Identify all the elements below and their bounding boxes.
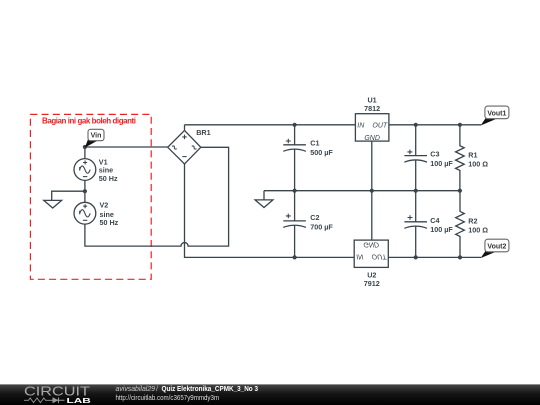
svg-text:100 µF: 100 µF [430,159,453,168]
node dot top rail C1 [293,123,297,127]
capacitor C3 [404,125,453,191]
svg-text:Bagian ini gak boleh diganti: Bagian ini gak boleh diganti [42,116,136,125]
node dot mid rail C3/C4 [414,189,418,193]
resistor R1 [456,125,489,191]
wire V1 to V2 [84,180,86,202]
svg-text:U2: U2 [367,270,376,279]
capacitor C2 [283,191,333,258]
bridge rectifier BR1 [168,125,211,164]
regulator U2 7912 (flipped vertically) [354,240,388,288]
svg-text:100 µF: 100 µF [430,225,453,234]
svg-text:OUT: OUT [372,122,388,129]
svg-text:C4: C4 [430,216,439,225]
annotation red dashed box [30,114,151,279]
logo squiggle (resistor + diode) [24,397,65,403]
svg-text:Quiz Elektronika_CPMK_3_No 3: Quiz Elektronika_CPMK_3_No 3 [162,384,259,393]
node flag Vout1 [481,106,509,125]
svg-text:http://circuitlab.com/c3657y9m: http://circuitlab.com/c3657y9mmdy3m [116,393,220,402]
wire U1 GND to U2 GND (crosses mid rail) [371,141,373,240]
node dot top rail R1 [458,123,462,127]
svg-text:LAB: LAB [67,396,92,405]
svg-text:GND: GND [363,240,379,247]
wire top rail left (bridge to U1) [185,124,356,126]
node dot top rail C3 [414,123,418,127]
footer bar [0,384,540,405]
regulator U1 7812 [355,95,389,142]
svg-text:IN: IN [357,122,365,129]
svg-text:100 Ω: 100 Ω [468,159,488,168]
node dot bottom rail C4 [414,255,418,259]
svg-text:U1: U1 [367,95,376,104]
node dot mid rail R1/R2 [458,189,462,193]
node dot bottom rail C2 [293,255,297,259]
svg-text:7812: 7812 [364,104,380,113]
capacitor C4 [404,191,453,258]
svg-text:C3: C3 [430,150,439,159]
node dot mid rail GND column [370,189,374,193]
svg-text:C2: C2 [310,213,319,222]
svg-text:Vin: Vin [91,133,102,140]
wire bridge bottom to U2 IN (bottom rail left) [185,164,355,258]
svg-text:R2: R2 [468,216,477,225]
voltage source V2 [74,200,119,227]
svg-text:IN: IN [356,253,364,260]
svg-text:Vout2: Vout2 [487,243,506,250]
wire V1 top stub [84,147,86,159]
svg-text:R1: R1 [468,151,477,160]
svg-text:V2: V2 [100,200,109,209]
node junction dot V1/V2/ground [83,189,87,193]
ground (mid rail) [255,191,273,208]
wire mid rail [264,190,460,192]
wire V2 bottom to bridge right (with hop) [85,147,229,246]
svg-text:avivsabilal29: avivsabilal29 [116,384,156,393]
svg-text:C1: C1 [310,138,319,147]
svg-text:50 Hz: 50 Hz [99,174,118,183]
resistor R2 [456,191,489,258]
svg-text:7912: 7912 [364,279,380,288]
svg-text:OUT: OUT [372,253,388,260]
svg-text:500 µF: 500 µF [310,148,333,157]
svg-text:Vout1: Vout1 [487,110,506,117]
svg-text:100 Ω: 100 Ω [468,226,488,235]
node dot bottom rail R2 [458,255,462,259]
svg-text:BR1: BR1 [196,128,210,137]
ground (left) [44,191,85,208]
voltage source V1 [74,157,118,183]
svg-text:50 Hz: 50 Hz [100,218,119,227]
node flag Vin [85,129,104,147]
node Vin junction dot [83,145,87,149]
node dot mid rail C1/C2 [293,189,297,193]
wire top rail right (U1 OUT to Vout1) [389,124,481,126]
wire Vin to bridge left [85,146,168,148]
wire bottom rail right (U2 OUT to Vout2) [388,256,481,258]
svg-text:700 µF: 700 µF [310,223,333,232]
node flag Vout2 [481,239,509,258]
capacitor C1 [283,125,333,191]
